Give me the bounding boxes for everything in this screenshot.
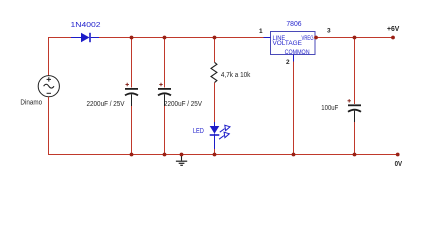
label R1 4,7k a 10k	[221, 72, 251, 79]
svg-text:+6V: +6V	[387, 26, 400, 33]
label C2 2200uF / 25V	[164, 101, 202, 108]
wire: top rail diode to regulator pin 1	[99, 37, 264, 39]
label +6V	[387, 26, 400, 33]
svg-text:2: 2	[286, 59, 290, 66]
pin number 2	[286, 59, 290, 66]
pin number 1	[259, 28, 263, 35]
wire: LED to bottom rail	[214, 149, 216, 155]
resistor R1 4,7k a 10k	[211, 62, 217, 82]
wire: top rail left vertical from source to corner	[48, 38, 50, 76]
wire: capacitor C2 branch upper	[164, 38, 166, 88]
svg-text:VOLTAGE: VOLTAGE	[273, 41, 302, 47]
svg-text:2200uF / 25V: 2200uF / 25V	[87, 101, 125, 108]
node: 0V terminal dot	[396, 153, 400, 157]
node: junction dot bottom rail cap C3	[353, 153, 357, 157]
node: +6V terminal dot	[391, 36, 395, 40]
svg-text:1: 1	[259, 28, 263, 35]
label 1N4002	[71, 20, 101, 29]
svg-text:1N4002: 1N4002	[71, 20, 101, 29]
svg-text:2200uF / 25V: 2200uF / 25V	[164, 101, 202, 108]
AC source V1 Dinamo	[38, 76, 59, 97]
wire: capacitor C2 branch lower	[164, 106, 166, 155]
capacitor C1 2200uF	[125, 83, 138, 106]
wire: top rail regulator pin 3 to +6V terminal	[315, 37, 393, 39]
svg-text:4,7k a 10k: 4,7k a 10k	[221, 72, 251, 79]
label Dinamo	[20, 100, 42, 107]
node: junction dot bottom rail cap C2	[163, 153, 167, 157]
voltage regulator U1 7806 box	[264, 32, 316, 62]
wire: regulator pin 2 down to bottom rail	[293, 62, 295, 156]
wire: capacitor C3 branch upper	[354, 38, 356, 105]
svg-text:COMMON: COMMON	[285, 50, 310, 56]
wire: capacitor C1 branch lower	[131, 106, 133, 155]
wire: capacitor C3 branch lower	[354, 122, 356, 155]
node: junction dot top rail resistor	[213, 36, 217, 40]
pin number 3	[327, 28, 331, 35]
label LED	[193, 128, 204, 135]
wire: top rail corner horizontal to diode anode	[48, 37, 71, 39]
svg-text:7806: 7806	[286, 21, 301, 28]
node: junction dot top rail cap C2	[163, 36, 167, 40]
wire: bottom rail	[48, 154, 398, 156]
label C3 100uF	[321, 105, 338, 112]
svg-text:3: 3	[327, 28, 331, 35]
label 0V	[395, 161, 403, 168]
label C1 2200uF / 25V	[87, 101, 125, 108]
label 7806	[286, 21, 301, 28]
svg-text:0V: 0V	[395, 161, 403, 168]
node: junction dot bottom rail cap C1	[130, 153, 134, 157]
wire: resistor branch upper	[214, 38, 216, 63]
svg-text:Dinamo: Dinamo	[20, 100, 42, 107]
diode D1 1N4002	[71, 33, 99, 42]
svg-text:100uF: 100uF	[321, 105, 338, 112]
wire: capacitor C1 branch upper	[131, 38, 133, 88]
svg-text:VREG: VREG	[302, 36, 314, 42]
node: junction dot regulator pin 3	[314, 36, 318, 40]
LED D2	[210, 122, 230, 149]
node: junction dot top rail cap C3	[353, 36, 357, 40]
node: junction dot bottom rail pin 2	[292, 153, 296, 157]
svg-text:LED: LED	[193, 128, 204, 135]
wire: left vertical below source to bottom rail	[48, 97, 50, 155]
node: junction dot top rail cap C1	[130, 36, 134, 40]
node: junction dot bottom rail ground	[180, 153, 184, 157]
capacitor C3 100uF	[348, 99, 362, 122]
wire: resistor to LED	[214, 83, 216, 122]
ground symbol	[176, 155, 187, 166]
node: junction dot bottom rail LED	[213, 153, 217, 157]
capacitor C2 2200uF	[158, 83, 171, 106]
